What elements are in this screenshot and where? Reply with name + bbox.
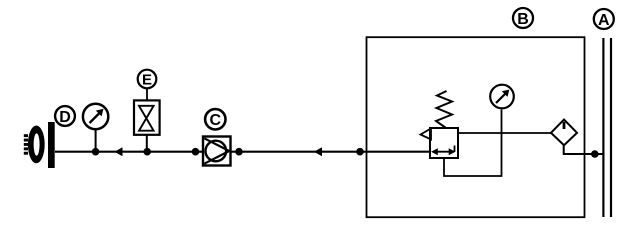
hose coupling (supply connector): [24, 122, 55, 168]
junction dot at E: [143, 148, 151, 156]
wire: regulator outlet line: [458, 132, 551, 134]
svg-text:E: E: [142, 72, 152, 89]
label D: [55, 106, 75, 126]
wire: main line middle segment: [231, 151, 431, 153]
component C (check valve in box): [203, 137, 231, 166]
pressure gauge in B: [490, 85, 514, 109]
label A: [594, 9, 614, 29]
wire: main line left segment: [55, 151, 203, 153]
supply line A (right): [610, 38, 612, 217]
enclosure box B: [367, 37, 585, 217]
label C: [205, 109, 225, 129]
flow arrow on main line (right): [314, 147, 322, 156]
label B: [513, 8, 533, 28]
regulator vent triangle: [421, 129, 432, 140]
wire: diamond outlet to supply: [564, 145, 604, 155]
label E: [138, 70, 157, 101]
svg-text:B: B: [517, 11, 529, 28]
pressure regulator body: [430, 128, 458, 158]
junction dot at box B inlet: [356, 148, 364, 156]
junction dot left of C: [192, 148, 200, 156]
regulator spring: [436, 91, 452, 128]
svg-text:C: C: [210, 112, 222, 129]
svg-text:A: A: [598, 12, 610, 29]
pressure gauge D: [83, 104, 108, 152]
junction dot at supply: [591, 150, 599, 158]
supply line A (left): [602, 38, 604, 217]
filter/separator diamond: [551, 120, 577, 146]
component E (shutoff valve, hourglass in box): [134, 100, 160, 151]
flow arrow on main line (left): [115, 147, 123, 156]
junction dot right of C: [235, 148, 243, 156]
wire: regulator feedback loop and gauge stem: [444, 110, 502, 177]
svg-text:D: D: [59, 109, 71, 126]
junction dot at gauge D: [92, 148, 100, 156]
